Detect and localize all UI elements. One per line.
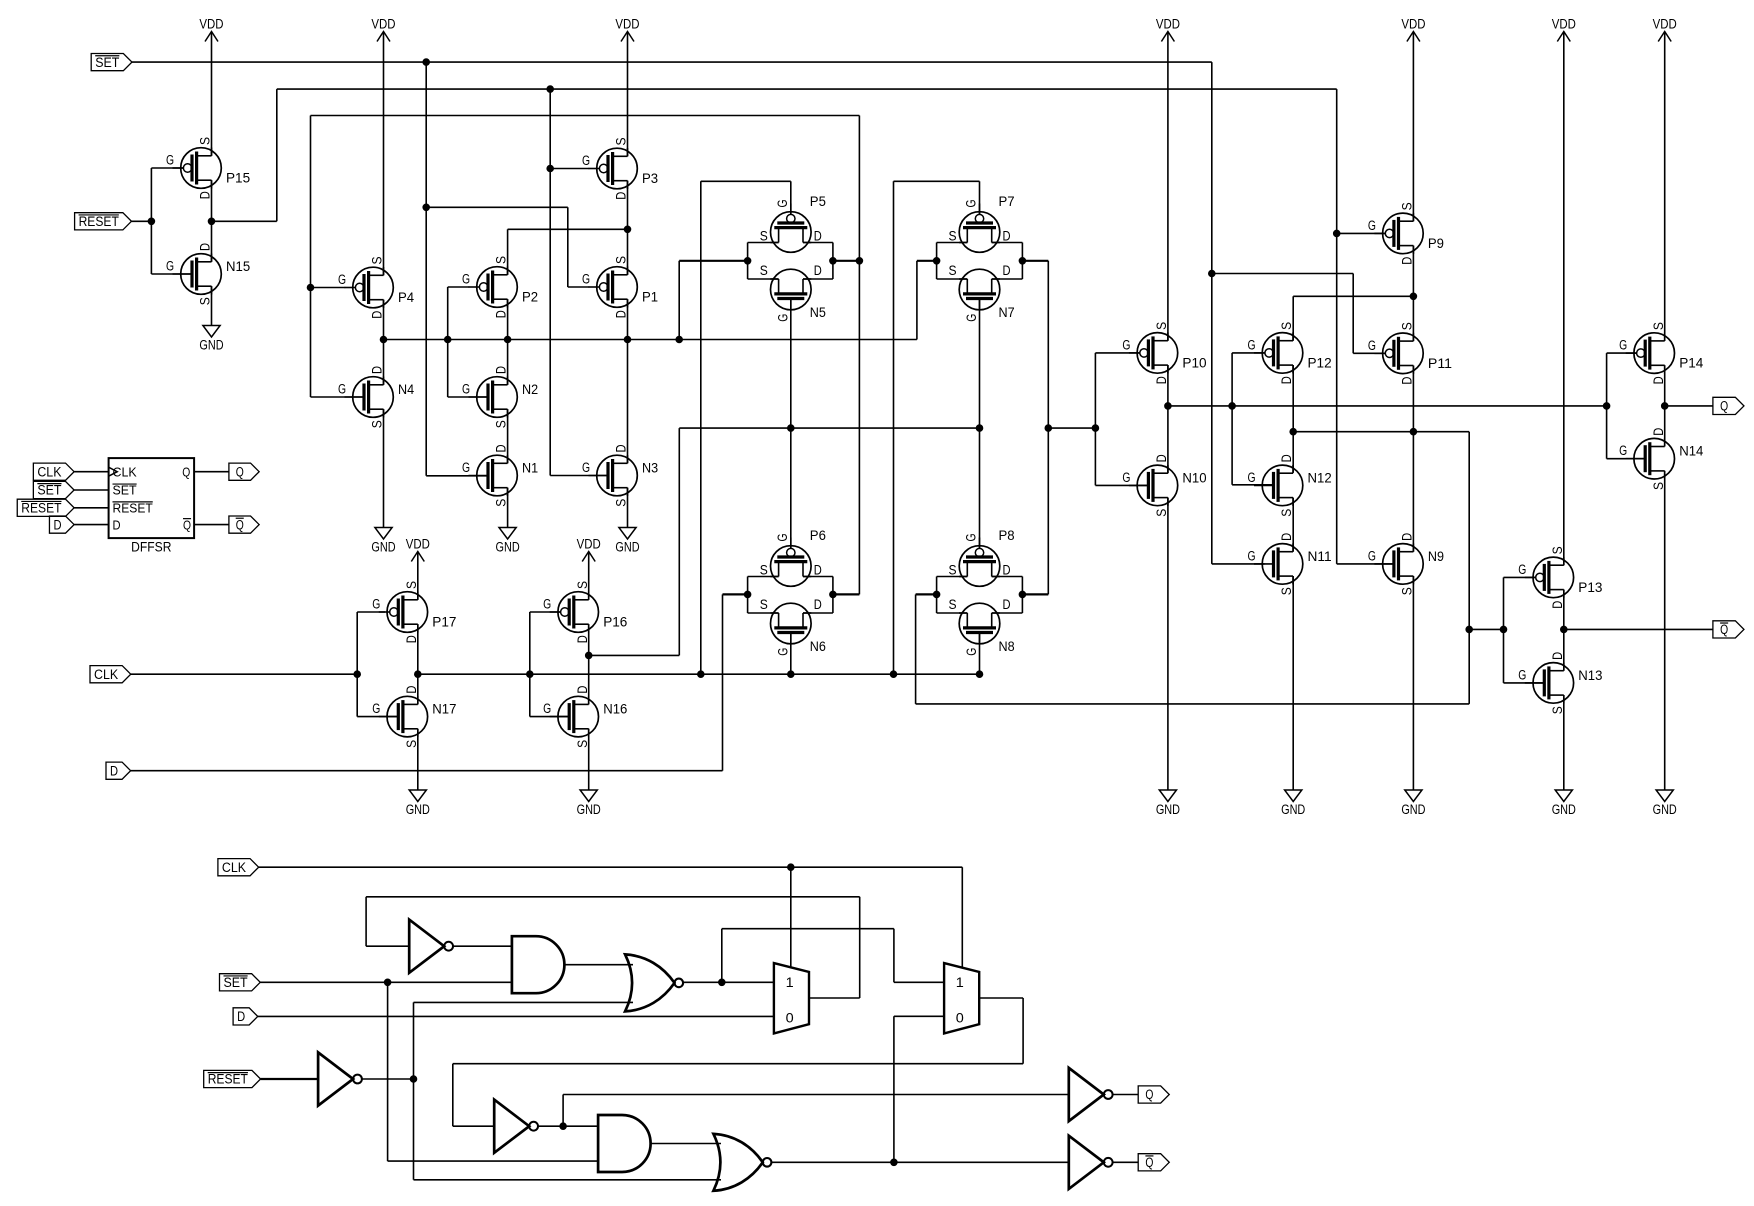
svg-text:N11: N11 (1308, 549, 1332, 565)
svg-text:RESET: RESET (21, 501, 61, 516)
svg-text:G: G (1247, 470, 1255, 486)
svg-text:G: G (775, 314, 791, 322)
svg-text:Q: Q (1145, 1087, 1153, 1102)
svg-text:G: G (775, 533, 791, 541)
svg-text:S: S (1154, 322, 1170, 330)
svg-text:D: D (110, 763, 118, 778)
svg-text:CLK: CLK (222, 860, 246, 875)
svg-text:DFFSR: DFFSR (131, 540, 171, 556)
svg-text:VDD: VDD (199, 17, 223, 33)
svg-text:P2: P2 (522, 290, 538, 306)
svg-text:G: G (1368, 338, 1376, 354)
svg-text:G: G (338, 382, 346, 398)
svg-text:N15: N15 (226, 259, 250, 275)
svg-text:GND: GND (1156, 802, 1180, 818)
svg-text:G: G (1247, 337, 1255, 353)
svg-text:G: G (582, 153, 590, 169)
svg-text:GND: GND (1281, 802, 1305, 818)
svg-text:RESET: RESET (113, 501, 153, 516)
svg-text:P7: P7 (999, 194, 1015, 210)
svg-text:S: S (1651, 322, 1667, 330)
svg-text:P10: P10 (1182, 355, 1206, 371)
svg-text:G: G (338, 272, 346, 288)
svg-text:D: D (237, 1009, 245, 1024)
svg-text:G: G (166, 153, 174, 169)
svg-text:CLK: CLK (94, 667, 118, 682)
svg-text:VDD: VDD (1156, 17, 1180, 33)
svg-text:Q: Q (183, 517, 191, 532)
svg-text:G: G (582, 272, 590, 288)
svg-text:D: D (113, 517, 121, 532)
svg-text:D: D (814, 597, 822, 613)
svg-text:VDD: VDD (1552, 17, 1576, 33)
svg-text:VDD: VDD (406, 537, 430, 553)
svg-text:N4: N4 (398, 382, 414, 398)
svg-text:VDD: VDD (577, 537, 601, 553)
svg-text:GND: GND (406, 802, 430, 818)
svg-text:S: S (614, 137, 630, 145)
svg-text:S: S (948, 263, 956, 279)
svg-text:G: G (582, 460, 590, 476)
svg-text:D: D (1003, 597, 1011, 613)
svg-text:P3: P3 (642, 171, 658, 187)
svg-text:P9: P9 (1428, 236, 1444, 252)
svg-text:G: G (166, 259, 174, 275)
svg-text:VDD: VDD (1653, 17, 1677, 33)
svg-text:GND: GND (577, 802, 601, 818)
svg-text:0: 0 (956, 1010, 964, 1025)
svg-text:N3: N3 (642, 461, 658, 477)
svg-text:P1: P1 (642, 290, 658, 306)
svg-text:G: G (964, 199, 980, 207)
svg-text:G: G (1122, 337, 1130, 353)
svg-text:N5: N5 (810, 305, 826, 321)
svg-text:N9: N9 (1428, 549, 1444, 565)
svg-text:N7: N7 (999, 305, 1015, 321)
svg-text:GND: GND (615, 540, 639, 556)
svg-text:RESET: RESET (79, 214, 119, 229)
svg-text:Q: Q (1145, 1155, 1153, 1170)
svg-text:N17: N17 (432, 702, 456, 718)
svg-text:G: G (964, 314, 980, 322)
svg-text:P6: P6 (810, 528, 826, 544)
svg-text:N6: N6 (810, 639, 826, 655)
svg-text:G: G (775, 199, 791, 207)
svg-text:RESET: RESET (208, 1072, 248, 1087)
svg-text:Q: Q (236, 517, 244, 532)
svg-text:G: G (1122, 470, 1130, 486)
svg-text:N14: N14 (1679, 444, 1703, 460)
svg-text:G: G (372, 597, 380, 613)
svg-text:G: G (462, 272, 470, 288)
svg-text:G: G (775, 648, 791, 656)
svg-text:SET: SET (224, 975, 248, 990)
svg-text:D: D (814, 263, 822, 279)
svg-text:SET: SET (113, 483, 137, 498)
svg-text:G: G (1368, 218, 1376, 234)
svg-text:G: G (1619, 443, 1627, 459)
svg-text:G: G (543, 597, 551, 613)
svg-text:N10: N10 (1182, 470, 1206, 486)
svg-text:P5: P5 (810, 194, 826, 210)
svg-text:1: 1 (786, 975, 794, 990)
svg-text:G: G (372, 701, 380, 717)
svg-text:G: G (543, 701, 551, 717)
svg-text:GND: GND (1552, 802, 1576, 818)
svg-text:S: S (370, 256, 386, 264)
svg-text:P11: P11 (1428, 356, 1452, 372)
svg-text:P14: P14 (1679, 356, 1703, 372)
svg-text:SET: SET (37, 483, 61, 498)
svg-text:S: S (198, 137, 214, 145)
svg-text:G: G (462, 382, 470, 398)
svg-text:GND: GND (1653, 802, 1677, 818)
svg-text:S: S (1400, 202, 1416, 210)
svg-text:N1: N1 (522, 461, 538, 477)
svg-text:N2: N2 (522, 382, 538, 398)
svg-text:S: S (948, 597, 956, 613)
svg-text:CLK: CLK (37, 464, 61, 479)
svg-text:G: G (964, 533, 980, 541)
svg-text:G: G (1518, 667, 1526, 683)
svg-text:GND: GND (199, 338, 223, 354)
svg-text:P4: P4 (398, 290, 414, 306)
svg-text:S: S (1550, 546, 1566, 554)
svg-text:CLK: CLK (113, 464, 137, 479)
svg-text:G: G (462, 460, 470, 476)
svg-text:P17: P17 (432, 615, 456, 631)
svg-text:N8: N8 (999, 639, 1015, 655)
svg-text:D: D (1003, 263, 1011, 279)
svg-text:P12: P12 (1308, 355, 1332, 371)
svg-text:Q: Q (1720, 399, 1728, 414)
svg-text:D: D (53, 517, 61, 532)
svg-text:GND: GND (496, 540, 520, 556)
svg-text:VDD: VDD (371, 17, 395, 33)
svg-text:P8: P8 (999, 528, 1015, 544)
svg-text:0: 0 (786, 1010, 794, 1025)
svg-text:VDD: VDD (1401, 17, 1425, 33)
svg-text:Q: Q (236, 464, 244, 479)
svg-text:GND: GND (371, 540, 395, 556)
svg-text:Q: Q (1720, 622, 1728, 637)
svg-text:N16: N16 (603, 702, 627, 718)
svg-text:SET: SET (95, 55, 119, 70)
svg-text:S: S (760, 597, 768, 613)
svg-text:P16: P16 (603, 615, 627, 631)
svg-text:N12: N12 (1308, 470, 1332, 486)
svg-text:1: 1 (956, 975, 964, 990)
svg-text:P15: P15 (226, 171, 250, 187)
svg-text:P13: P13 (1578, 580, 1602, 596)
svg-text:G: G (1518, 562, 1526, 578)
svg-text:S: S (760, 263, 768, 279)
svg-text:Q: Q (182, 464, 190, 479)
svg-text:G: G (1619, 338, 1627, 354)
svg-text:G: G (964, 648, 980, 656)
svg-text:N13: N13 (1578, 668, 1602, 684)
svg-text:G: G (1247, 548, 1255, 564)
svg-text:G: G (1368, 548, 1376, 564)
svg-text:VDD: VDD (615, 17, 639, 33)
svg-text:GND: GND (1401, 802, 1425, 818)
